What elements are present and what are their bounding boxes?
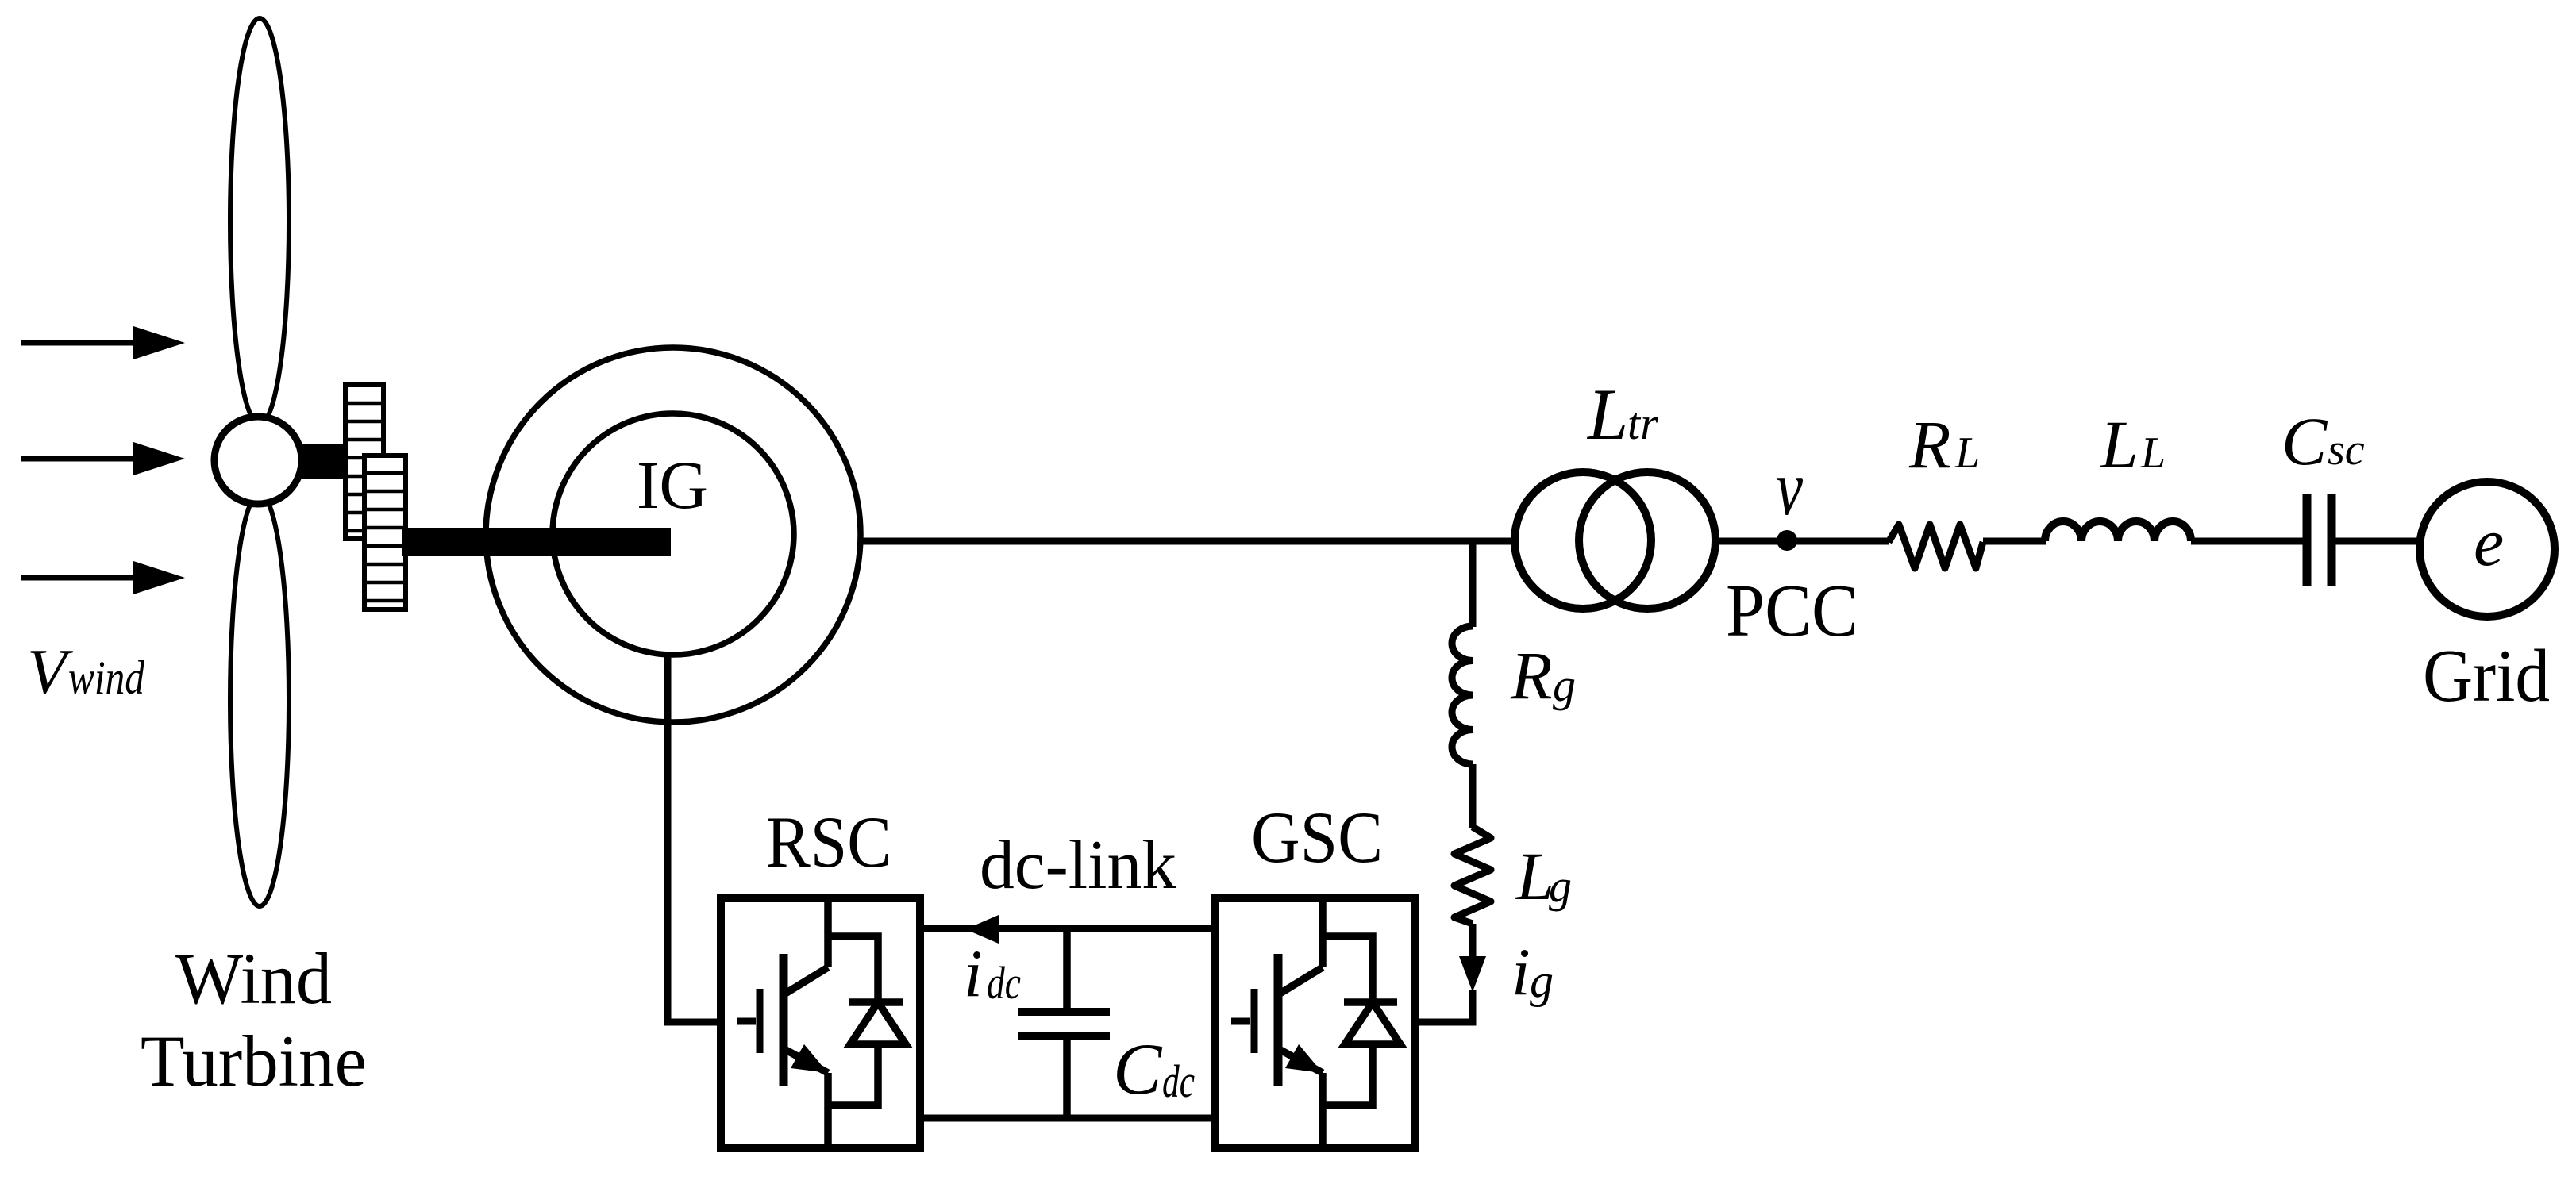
turbine blade lower xyxy=(230,494,289,906)
svg-text:g: g xyxy=(1553,659,1576,711)
wire Csc to grid xyxy=(2331,538,2420,545)
svg-text:Grid: Grid xyxy=(2423,635,2550,717)
turbine shaft high-speed xyxy=(402,528,671,556)
label idc xyxy=(964,936,1021,1011)
svg-text:R: R xyxy=(1908,406,1951,482)
svg-text:C: C xyxy=(1113,1028,1163,1109)
inductor LL xyxy=(2045,521,2191,541)
svg-text:IG: IG xyxy=(637,447,708,523)
svg-text:V: V xyxy=(27,636,73,708)
gearbox wheel 1 xyxy=(345,385,383,539)
svg-text:tr: tr xyxy=(1627,398,1658,449)
svg-text:Wind: Wind xyxy=(175,938,332,1019)
svg-text:v: v xyxy=(1776,444,1803,532)
label Ltr xyxy=(1586,374,1658,455)
svg-text:dc: dc xyxy=(987,957,1021,1009)
svg-text:L: L xyxy=(1954,429,1980,478)
capacitor Cdc xyxy=(1018,928,1110,1118)
capacitor Csc xyxy=(2307,494,2331,586)
gearbox wheel 2 xyxy=(364,456,406,609)
turbine blade upper xyxy=(230,18,289,425)
wire IG stator down to RSC xyxy=(668,657,718,1022)
svg-text:Turbine: Turbine xyxy=(141,1021,367,1101)
diode D2 in GSC xyxy=(1323,936,1400,1105)
dc-link top wire with idc arrow xyxy=(920,915,1215,944)
svg-text:R: R xyxy=(1510,637,1553,713)
wire LL to Csc xyxy=(2191,538,2303,545)
dc-link bottom wire xyxy=(920,1115,1215,1122)
converter GSC box xyxy=(1215,898,1415,1148)
transformer Ltr circle left xyxy=(1515,472,1651,609)
svg-text:GSC: GSC xyxy=(1251,797,1383,878)
resistor RL xyxy=(1889,525,1983,568)
inductor Rg xyxy=(1452,626,1473,764)
label Rg xyxy=(1510,637,1576,713)
diode D1 in RSC xyxy=(828,936,906,1105)
wind arrow 3 xyxy=(21,561,185,594)
wire transformer to RL xyxy=(1715,538,1889,545)
label Vwind xyxy=(27,636,145,708)
label RL xyxy=(1908,406,1980,482)
svg-text:C: C xyxy=(2281,403,2328,479)
svg-text:i: i xyxy=(1511,935,1531,1009)
turbine shaft low-speed xyxy=(300,444,346,479)
converter RSC box xyxy=(721,898,920,1148)
wire Rg to Lg xyxy=(1469,764,1477,828)
svg-text:i: i xyxy=(964,936,983,1011)
svg-text:dc-link: dc-link xyxy=(980,827,1176,904)
svg-text:g: g xyxy=(1549,860,1572,912)
svg-text:e: e xyxy=(2474,504,2504,580)
transformer Ltr circle right xyxy=(1579,472,1715,609)
wind arrow 2 xyxy=(21,442,185,475)
svg-text:L: L xyxy=(2140,429,2166,478)
svg-text:wind: wind xyxy=(68,652,145,704)
wind arrow 1 xyxy=(21,326,185,359)
svg-text:L: L xyxy=(1586,374,1628,455)
grid source circle xyxy=(2420,482,2555,617)
induction generator IG inner circle xyxy=(553,413,794,655)
wire Lg to GSC with ig arrow xyxy=(1416,924,1486,1022)
svg-text:sc: sc xyxy=(2328,425,2365,475)
induction generator IG outer circle xyxy=(486,348,861,722)
svg-text:dc: dc xyxy=(1162,1055,1195,1107)
svg-text:g: g xyxy=(1530,955,1554,1007)
resistor Lg xyxy=(1454,827,1491,924)
turbine hub xyxy=(214,417,302,504)
IGBT Q1 in RSC xyxy=(737,898,828,1144)
svg-text:RSC: RSC xyxy=(766,802,891,882)
wire RL to LL xyxy=(1983,538,2046,545)
label Wind Turbine xyxy=(141,938,367,1101)
IGBT Q2 in GSC xyxy=(1231,898,1323,1144)
wire IG to transformer xyxy=(859,538,1515,545)
label ig xyxy=(1511,935,1554,1009)
node junction at Rg branch xyxy=(1469,541,1477,627)
label Csc xyxy=(2281,403,2365,479)
label Lg xyxy=(1515,838,1572,914)
label Cdc xyxy=(1113,1028,1195,1109)
node v dot xyxy=(1777,530,1797,551)
svg-text:L: L xyxy=(2099,406,2139,482)
label LL xyxy=(2099,406,2166,482)
svg-text:PCC: PCC xyxy=(1726,570,1858,652)
